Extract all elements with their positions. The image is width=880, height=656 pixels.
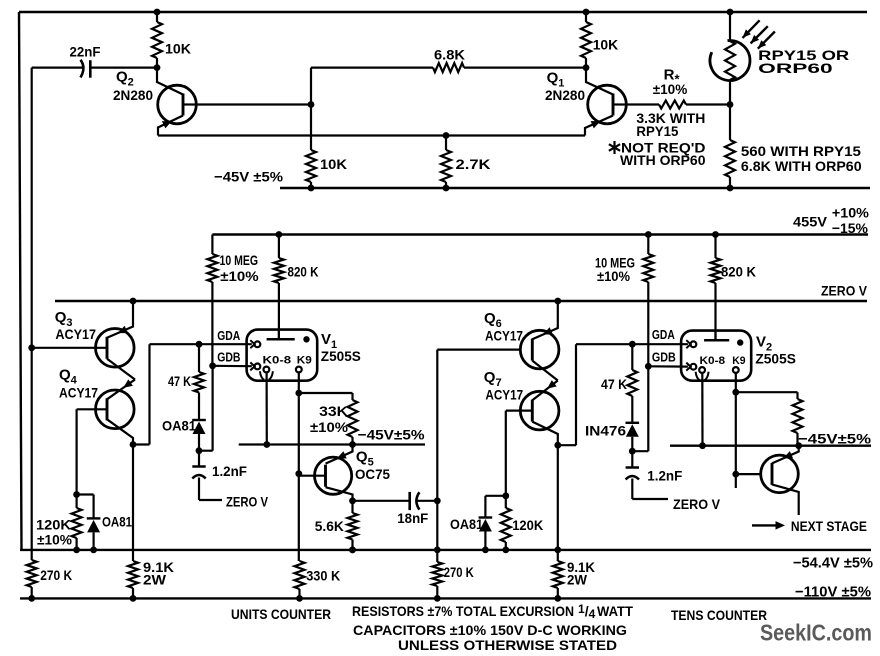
wire K9 chain down to 330K: [298, 474, 300, 561]
svg-text:TENS COUNTER: TENS COUNTER: [671, 607, 767, 623]
wire GDA line left: [150, 343, 252, 345]
resistor R-2.7K: [443, 132, 450, 139]
capacitor 1.2nF left: [198, 451, 200, 466]
node K0-8 right on -45V: [699, 442, 706, 449]
V1 inner dot: [303, 336, 309, 342]
node Q3 emitter / ZERO V: [130, 298, 137, 305]
wire Q2 base to 6.8K junction: [196, 103, 311, 105]
photocell RPY15/ORP60: [727, 9, 734, 16]
svg-text:GDB: GDB: [217, 350, 240, 365]
resistor 820K right: [712, 231, 719, 238]
node K9/33K branch: [295, 390, 302, 397]
resistor 820K left: [276, 231, 283, 238]
svg-text:OA81: OA81: [450, 516, 483, 532]
svg-text:10K: 10K: [593, 37, 619, 53]
node Q7 collector junction: [554, 442, 561, 449]
svg-text:K9: K9: [297, 354, 312, 366]
svg-text:ORP60: ORP60: [758, 60, 833, 76]
svg-text:±10%: ±10%: [653, 81, 688, 97]
svg-text:270 K: 270 K: [40, 567, 72, 583]
node 6.8K/10K junction left: [308, 101, 315, 108]
capacitor 1.2nF right: [631, 451, 633, 467]
V1 GDA pin: [250, 340, 254, 348]
svg-text:Z505S: Z505S: [321, 348, 361, 364]
resistor R* base resistor: [626, 103, 659, 105]
svg-text:IN476: IN476: [585, 423, 626, 439]
tube V1 Z505S: [247, 330, 318, 381]
wire K9 riser down to Q5 base: [298, 393, 300, 474]
node 47K top: [196, 341, 203, 348]
svg-text:33K: 33K: [319, 403, 348, 419]
wire GDA line right: [576, 343, 688, 345]
light arrows: [743, 20, 760, 38]
svg-text:−45V ±5%: −45V ±5%: [214, 169, 284, 185]
node 47K right top: [629, 341, 636, 348]
V2 GDA pin: [686, 340, 690, 348]
node Q5 emitter junction: [349, 497, 356, 504]
svg-text:RPY15: RPY15: [636, 123, 678, 139]
resistor 10MEG right: [645, 231, 652, 238]
V2 K0-8 pin: [699, 367, 705, 373]
capacitor 18nF: [353, 500, 410, 502]
svg-text:WITH ORP60: WITH ORP60: [620, 152, 706, 168]
svg-text:120K: 120K: [36, 517, 71, 533]
svg-text:120K: 120K: [512, 517, 543, 533]
V2 anode bar: [704, 339, 729, 342]
resistor 47K right: [631, 344, 633, 370]
resistor 560/6.8K photocell load: [729, 105, 731, 141]
transistor Q7 ACY17: [520, 391, 559, 430]
svg-text:2.7K: 2.7K: [456, 156, 491, 172]
svg-text:270 K: 270 K: [444, 564, 474, 580]
svg-text:5.6K: 5.6K: [315, 518, 344, 534]
svg-text:SeekIC.com: SeekIC.com: [760, 620, 872, 646]
node OA81/1.2nF junction: [196, 447, 203, 454]
wire GDB line right: [648, 365, 688, 368]
transistor output driver: [761, 455, 799, 493]
svg-text:6.8K: 6.8K: [434, 47, 465, 63]
svg-text:OC75: OC75: [355, 466, 390, 482]
node GDB junction right: [645, 363, 652, 370]
svg-text:CAPACITORS ±10% 150V D-C WORKI: CAPACITORS ±10% 150V D-C WORKING: [353, 622, 627, 638]
node 22nF/10K/Q2 junction: [154, 64, 161, 71]
svg-text:2W: 2W: [567, 572, 588, 588]
wire -45V top rail: [280, 187, 870, 189]
diode OA81 lower-left: [77, 493, 94, 495]
wire Q4 collector to GDA riser: [133, 443, 150, 445]
svg-text:K9: K9: [732, 355, 745, 367]
wire 455V rail: [212, 233, 868, 235]
wire GDB line left: [213, 365, 252, 368]
svg-text:GDA: GDA: [217, 328, 240, 343]
svg-text:−45V±5%: −45V±5%: [358, 427, 426, 443]
svg-text:ACY17: ACY17: [485, 387, 523, 403]
svg-text:K0-8: K0-8: [700, 355, 726, 367]
svg-text:820 K: 820 K: [721, 264, 756, 280]
svg-text:Z505S: Z505S: [755, 351, 796, 367]
wire K9 riser to output transistor base: [735, 392, 737, 474]
wire to GDB junction: [199, 450, 213, 452]
svg-text:2N280: 2N280: [113, 87, 153, 103]
svg-text:+10%: +10%: [832, 205, 870, 221]
wire left outer vertical: [19, 12, 22, 550]
node Q7 base junction: [502, 492, 509, 499]
resistor 10MEG left: [211, 235, 213, 255]
resistor 9.1K 2W right: [553, 561, 563, 588]
transistor Q6 ACY17: [520, 330, 559, 369]
svg-text:UNITS COUNTER: UNITS COUNTER: [231, 606, 331, 622]
svg-text:1.2nF: 1.2nF: [647, 468, 682, 484]
svg-text:ZERO V: ZERO V: [226, 494, 269, 510]
resistor 120K left: [72, 508, 82, 538]
V1 K9 pin: [296, 367, 302, 373]
svg-text:−45V±5%: −45V±5%: [798, 431, 872, 447]
wire top rail: [19, 11, 867, 14]
wire feedback vertical from 22nF line down to -110V rail: [31, 68, 33, 560]
svg-text:ACY17: ACY17: [485, 328, 523, 344]
transistor Q3 ACY17: [96, 329, 135, 368]
svg-text:ZERO V: ZERO V: [821, 283, 868, 299]
svg-text:GDB: GDB: [652, 350, 676, 365]
svg-text:UNLESS OTHERWISE STATED: UNLESS OTHERWISE STATED: [398, 637, 617, 651]
diode OA81 lower-right: [485, 495, 505, 497]
svg-text:22nF: 22nF: [70, 44, 101, 60]
V1 anode bar: [267, 338, 295, 341]
resistor K9 anode resistor right: [796, 392, 798, 399]
resistor 9.1K 2W left: [128, 561, 138, 588]
resistor 120K right: [505, 496, 507, 508]
resistor 33K: [351, 393, 353, 400]
svg-text:2N280: 2N280: [545, 87, 585, 103]
transistor Q1 2N280: [588, 85, 627, 124]
transistor Q2 2N280: [158, 85, 197, 124]
resistor 270K left: [27, 560, 37, 587]
svg-text:6.8K WITH ORP60: 6.8K WITH ORP60: [741, 158, 862, 174]
node GDB junction left: [209, 362, 216, 369]
svg-text:330 K: 330 K: [306, 568, 340, 584]
svg-text:2W: 2W: [143, 572, 167, 588]
svg-text:−110V ±5%: −110V ±5%: [795, 584, 871, 601]
svg-text:−15%: −15%: [832, 220, 869, 236]
svg-text:ACY17: ACY17: [59, 385, 98, 401]
transistor Q4 ACY17: [96, 390, 135, 429]
ZERO V stub right: [632, 498, 668, 500]
ZERO V stub left: [199, 499, 222, 501]
NEXT STAGE arrow: [752, 524, 777, 526]
resistor R-6.8K horizontal: [311, 66, 433, 68]
resistor 270K middle: [434, 547, 441, 554]
wire Q1/Q2 emitter rail: [158, 134, 585, 136]
node Q4 collector junction: [130, 441, 137, 448]
svg-text:−54.4V ±5%: −54.4V ±5%: [793, 555, 873, 572]
diode OA81 upper-left: [192, 419, 206, 421]
node dots on -54.4V rail: [349, 547, 356, 554]
V1 K0-8 pin: [264, 367, 270, 373]
note NOT REQ'D WITH ORP60: [613, 141, 615, 154]
svg-text:±10%: ±10%: [310, 419, 349, 435]
resistor R-10K left-top: [154, 9, 161, 16]
resistor 47K left: [198, 344, 200, 372]
diode IN476: [626, 422, 640, 424]
svg-text:560 WITH RPY15: 560 WITH RPY15: [741, 143, 861, 159]
wire vertical x=311: [310, 68, 312, 150]
svg-text:±10%: ±10%: [597, 268, 630, 284]
svg-text:ACY17: ACY17: [55, 326, 96, 342]
tube V2 Z505S: [681, 331, 751, 381]
svg-text:18nF: 18nF: [397, 510, 428, 526]
wire 9.1K right chain: [557, 445, 559, 561]
node IN476/1.2nF junction: [629, 448, 636, 455]
wire -54.4V rail: [20, 549, 871, 551]
wire Q7 collector to GDA riser right: [558, 444, 576, 446]
V2 K9 pin: [733, 367, 739, 373]
svg-text:RESISTORS ±7% TOTAL EXCURSION: RESISTORS ±7% TOTAL EXCURSION: [352, 603, 574, 619]
svg-text:NEXT STAGE: NEXT STAGE: [791, 518, 867, 534]
wire 9.1K chain vertical: [132, 445, 134, 562]
svg-text:10K: 10K: [320, 156, 347, 172]
node photocell / R* junction: [727, 101, 734, 108]
svg-text:GDA: GDA: [652, 327, 675, 342]
svg-text:OA81: OA81: [162, 418, 196, 434]
svg-text:±10%: ±10%: [37, 532, 73, 548]
svg-text:47 K: 47 K: [168, 373, 191, 389]
resistor R-10K right-top: [583, 9, 590, 16]
svg-text:1.2nF: 1.2nF: [212, 463, 247, 479]
svg-text:ZERO V: ZERO V: [673, 496, 721, 512]
V2 GDB pin: [686, 363, 690, 371]
svg-text:OA81: OA81: [102, 514, 132, 530]
node K9 right branch: [732, 389, 739, 396]
wire -45V line right stage: [670, 445, 871, 447]
svg-text:47 K: 47 K: [601, 376, 627, 392]
wire to GDB junction right: [632, 450, 648, 452]
svg-text:K0-8: K0-8: [263, 354, 292, 366]
transistor Q5 OC75: [315, 457, 352, 494]
node Q6 emitter / ZERO V: [554, 298, 561, 305]
wire Q6 base riser: [436, 350, 438, 550]
V2 inner dot: [737, 339, 743, 345]
svg-text:820 K: 820 K: [288, 264, 319, 280]
resistor 330K: [295, 561, 305, 589]
node 18nF / Q6-base riser: [434, 497, 441, 504]
V1 GDB pin: [250, 362, 254, 370]
svg-text:10 MEG: 10 MEG: [220, 252, 259, 268]
resistor 5.6K: [351, 501, 353, 513]
wire -45V line left stage: [239, 443, 425, 445]
svg-text:455V: 455V: [793, 214, 828, 230]
wire ZERO V rail: [55, 300, 867, 302]
svg-text:WATT: WATT: [597, 603, 633, 619]
wire -110V rail: [20, 597, 871, 599]
node K0-8 lead on -45V: [263, 441, 270, 448]
svg-text:±10%: ±10%: [220, 268, 259, 284]
node Q4 base junction: [73, 491, 80, 498]
svg-text:10K: 10K: [165, 41, 191, 57]
resistor R-10K lower-left: [306, 150, 316, 182]
capacitor C1 22nF: [32, 66, 83, 68]
